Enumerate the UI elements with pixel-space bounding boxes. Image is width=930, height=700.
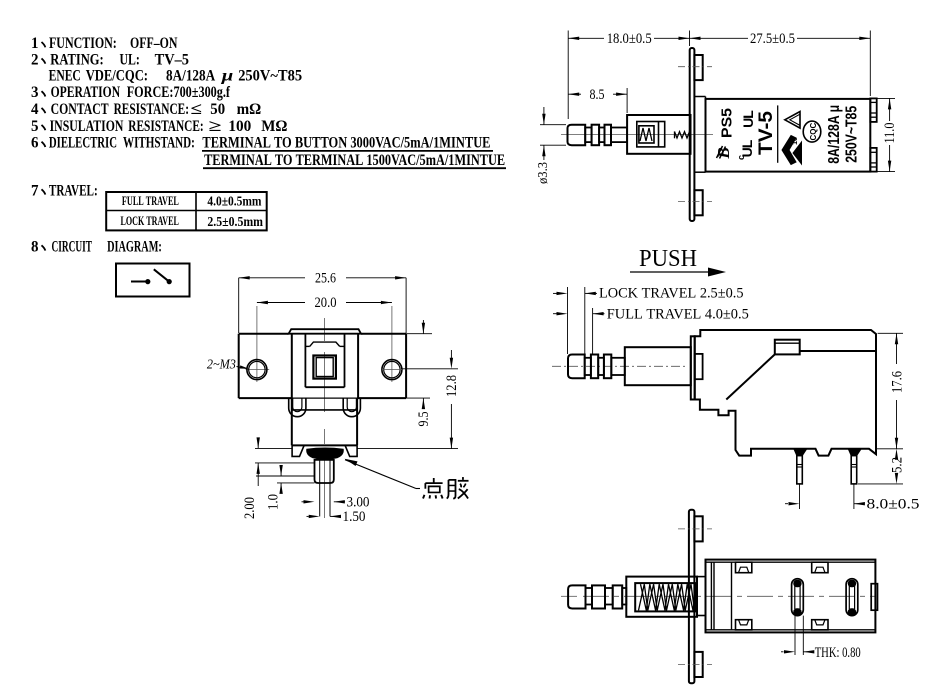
svg-text:RESISTANCE:: RESISTANCE:: [114, 100, 189, 118]
svg-text:3.00: 3.00: [347, 495, 370, 511]
svg-text:≥: ≥: [209, 117, 222, 135]
svg-text:CIRCUIT: CIRCUIT: [52, 237, 93, 255]
svg-text:20.0: 20.0: [315, 295, 337, 311]
svg-text:LOCK TRAVEL: LOCK TRAVEL: [121, 213, 180, 228]
svg-text:OPERATION: OPERATION: [51, 83, 121, 101]
svg-text:CONTACT: CONTACT: [51, 100, 109, 118]
svg-text:CQC: CQC: [809, 122, 818, 140]
svg-text:4.0±0.5mm: 4.0±0.5mm: [207, 193, 262, 208]
svg-text:11.0: 11.0: [882, 123, 898, 144]
svg-text:12.8: 12.8: [444, 375, 460, 397]
svg-text:2.5±0.5mm: 2.5±0.5mm: [207, 214, 263, 229]
svg-text:DIAGRAM:: DIAGRAM:: [107, 237, 162, 255]
svg-text:c: c: [736, 155, 746, 160]
svg-text:10: 10: [792, 137, 799, 145]
svg-text:1.0: 1.0: [265, 494, 281, 510]
svg-text:1: 1: [31, 34, 39, 52]
svg-text:FORCE:700±300g.f: FORCE:700±300g.f: [127, 83, 231, 101]
svg-text:INSULATION: INSULATION: [50, 117, 124, 135]
svg-text:OFF–ON: OFF–ON: [130, 34, 178, 52]
svg-text:8.0±0.5: 8.0±0.5: [867, 497, 920, 513]
svg-text:8A/128A: 8A/128A: [166, 67, 215, 85]
svg-text:TRAVEL:: TRAVEL:: [49, 181, 98, 199]
svg-text:250V~T85: 250V~T85: [844, 106, 861, 163]
svg-text:FUNCTION:: FUNCTION:: [49, 34, 117, 52]
svg-text:8.5: 8.5: [590, 87, 605, 103]
svg-text:MΩ: MΩ: [261, 117, 287, 135]
svg-text:9.5: 9.5: [416, 412, 432, 427]
svg-text:TV-5: TV-5: [756, 111, 777, 155]
svg-text:FULL TRAVEL 4.0±0.5: FULL TRAVEL 4.0±0.5: [607, 307, 749, 323]
svg-text:TERMINAL TO BUTTON 3000VAC/5mA: TERMINAL TO BUTTON 3000VAC/5mA/1MINTUE: [202, 134, 490, 152]
svg-text:250V~T85: 250V~T85: [238, 67, 302, 85]
svg-text:ENEC: ENEC: [49, 67, 81, 85]
svg-text:≤: ≤: [191, 100, 203, 118]
svg-text:ø3.3: ø3.3: [535, 162, 550, 184]
svg-text:RESISTANCE:: RESISTANCE:: [128, 117, 203, 135]
svg-text:18.0±0.5: 18.0±0.5: [607, 31, 652, 47]
svg-text:8: 8: [31, 237, 39, 255]
svg-text:7: 7: [31, 181, 39, 199]
svg-text:4: 4: [31, 100, 39, 118]
svg-text:WITHSTAND:: WITHSTAND:: [123, 134, 195, 152]
svg-text:LOCK TRAVEL 2.5±0.5: LOCK TRAVEL 2.5±0.5: [599, 286, 744, 302]
svg-text:3: 3: [31, 83, 39, 101]
svg-text:5.2: 5.2: [889, 457, 905, 473]
svg-text:50: 50: [210, 100, 225, 118]
svg-text:μ: μ: [221, 67, 234, 85]
svg-text:FULL TRAVEL: FULL TRAVEL: [122, 193, 179, 208]
svg-text:2: 2: [31, 50, 39, 68]
svg-text:mΩ: mΩ: [237, 100, 262, 118]
svg-text:27.5±0.5: 27.5±0.5: [750, 31, 795, 47]
svg-text:2.00: 2.00: [242, 497, 258, 519]
svg-text:1.50: 1.50: [343, 509, 366, 525]
svg-text:25.6: 25.6: [315, 271, 336, 287]
svg-text:DIELECTRIC: DIELECTRIC: [49, 134, 117, 152]
svg-text:TERMINAL TO TERMINAL 1500VAC/5: TERMINAL TO TERMINAL 1500VAC/5mA/1MINTUE: [204, 151, 505, 169]
svg-text:THK: 0.80: THK: 0.80: [815, 645, 861, 661]
svg-text:5: 5: [31, 117, 39, 135]
svg-text:17.6: 17.6: [889, 371, 905, 393]
svg-text:2~M3: 2~M3: [207, 358, 236, 373]
svg-text:VDE/CQC:: VDE/CQC:: [86, 67, 148, 85]
svg-text:PS5: PS5: [719, 108, 736, 138]
svg-text:100: 100: [228, 117, 251, 135]
svg-text:8A/128A μ: 8A/128A μ: [826, 105, 843, 164]
svg-text:UL: UL: [740, 110, 756, 128]
svg-text:6: 6: [31, 134, 39, 152]
svg-text:PUSH: PUSH: [639, 246, 697, 272]
svg-text:UL: UL: [739, 139, 755, 157]
